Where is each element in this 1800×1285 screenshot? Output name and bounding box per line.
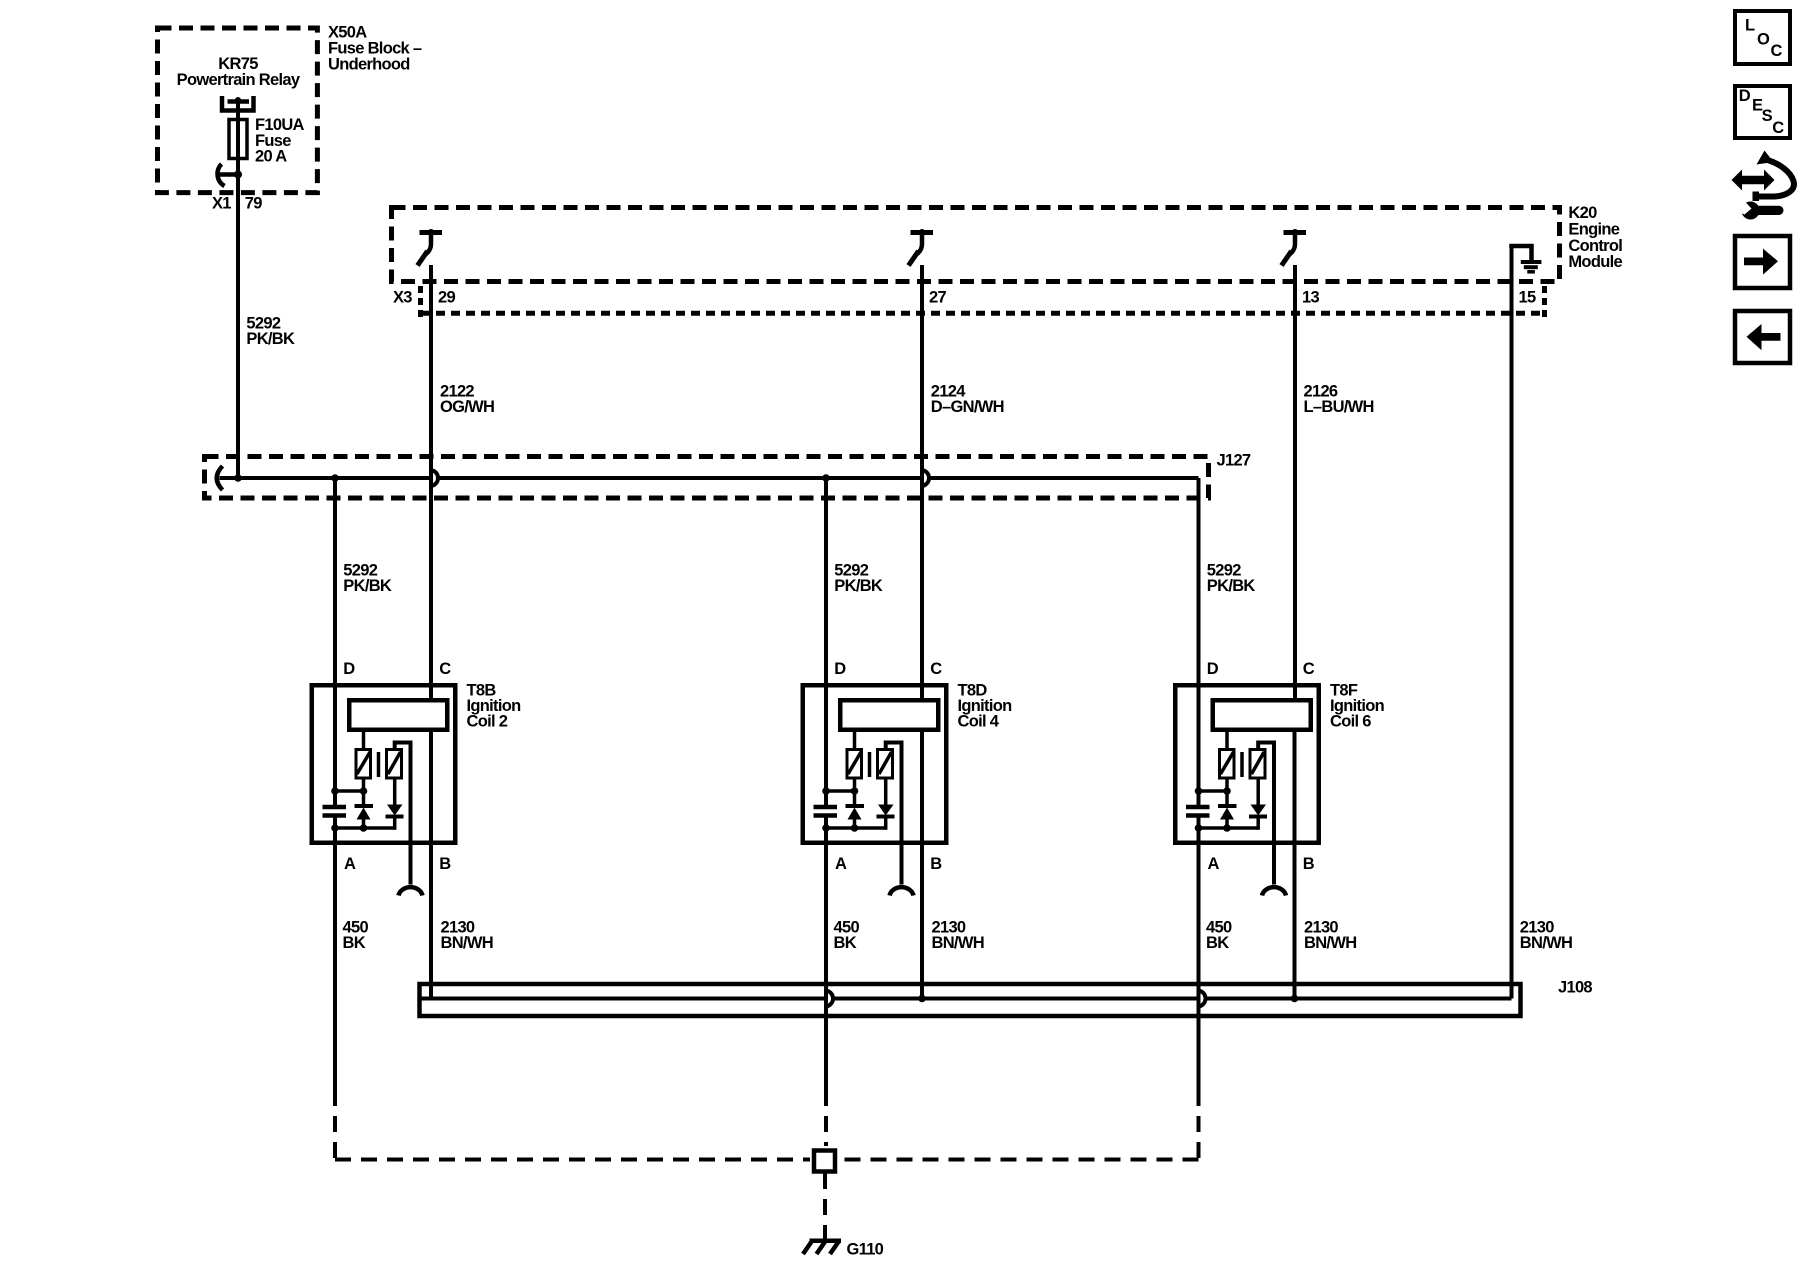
connector X3 dotted line: [421, 311, 1545, 316]
secondary winding T8D: [878, 750, 893, 779]
ignition coil T8D box: [803, 685, 947, 843]
wire 5292 PK/BK to coil6 pin D: [1197, 478, 1201, 1090]
svg-text:A: A: [835, 855, 847, 873]
pin B label T8B: [439, 855, 451, 873]
svg-text:C: C: [1772, 119, 1784, 137]
secondary winding T8B: [387, 750, 402, 779]
label T8F Ignition Coil 6: [1330, 682, 1385, 731]
label J108: [1558, 979, 1592, 997]
T8B primary module rectangle: [349, 700, 447, 730]
wire coil2 pin B 2130 BN/WH: [429, 732, 433, 999]
svg-text:L: L: [1745, 17, 1755, 35]
wire node row lower T8D: [826, 826, 886, 830]
primary winding T8B: [356, 750, 371, 779]
wire 2122 OG/WH pin29 to coil2: [429, 265, 433, 698]
splice pack J127 dashed box: [205, 457, 1209, 499]
pin C label T8F: [1303, 660, 1315, 678]
svg-text:Underhood: Underhood: [328, 55, 410, 73]
svg-text:B: B: [930, 855, 942, 873]
junction dot T8D lower left: [822, 824, 830, 832]
wire secondary top to spark tower T8D: [886, 743, 902, 885]
wire node row lower T8B: [335, 826, 395, 830]
wire node row upper T8B: [335, 789, 364, 793]
svg-text:J127: J127: [1217, 451, 1251, 469]
pin label 27: [929, 288, 946, 306]
junction dot T8F upper mid: [1223, 787, 1231, 795]
svg-text:B: B: [1303, 855, 1315, 873]
svg-text:29: 29: [438, 288, 455, 306]
wire coil4 pin B 2130 BN/WH: [920, 732, 924, 999]
icon box DESC: [1735, 86, 1790, 138]
svg-text:27: 27: [929, 288, 946, 306]
driver transistor pin 13: [1282, 229, 1307, 266]
spark gap T8F: [1262, 887, 1286, 895]
J127 hop over wire 2124: [921, 470, 929, 486]
ground bus J108 outline: [420, 984, 1521, 1016]
T8F primary module rectangle: [1213, 700, 1311, 730]
primary winding T8F: [1220, 750, 1235, 779]
label KR75 Powertrain Relay: [177, 55, 301, 89]
spark gap T8B: [399, 887, 423, 895]
svg-text:BK: BK: [834, 934, 857, 952]
zener diode T8F: [1218, 791, 1237, 829]
junction dot T8D lower mid: [851, 824, 859, 832]
label J127: [1217, 451, 1251, 469]
transformer core T8D: [868, 752, 872, 777]
label T8B Ignition Coil 2: [467, 682, 522, 731]
svg-text:D: D: [834, 660, 846, 678]
wire primary winding bottom lead T8D: [853, 778, 857, 793]
junction dot J108 coil4: [918, 995, 926, 1003]
junction dot T8F lower left: [1195, 824, 1203, 832]
junction dot T8B lower left: [331, 824, 339, 832]
svg-text:C: C: [1771, 42, 1783, 60]
pin C label T8D: [930, 660, 942, 678]
fuse F10UA 20A: [229, 120, 247, 159]
svg-text:D–GN/WH: D–GN/WH: [931, 398, 1004, 416]
svg-text:Coil 2: Coil 2: [467, 713, 508, 731]
label wire 450 BK coil6: [1206, 918, 1232, 952]
pin B label T8D: [930, 855, 942, 873]
junction dot T8B upper mid: [360, 787, 368, 795]
zener diode T8B: [355, 791, 374, 829]
driver transistor pin 29: [418, 229, 443, 266]
label wire 5292 PK/BK coil2: [343, 562, 392, 596]
junction dot T8D upper left: [822, 787, 830, 795]
icon box LOC: [1735, 11, 1790, 64]
wire 2130 BN/WH pin15 ground return: [1510, 246, 1514, 999]
J108 hop over coil6 450 wire: [1198, 991, 1206, 1007]
pin C label T8B: [439, 660, 451, 678]
wire T8D module to primary winding: [853, 732, 857, 750]
junction dot T8B upper left: [331, 787, 339, 795]
pin label 29: [438, 288, 455, 306]
wire 2124 D-GN/WH pin27 to coil4: [920, 265, 924, 698]
wire 5292 PK/BK to coil2 pin D: [333, 478, 337, 1090]
connector X3 left separator: [418, 286, 423, 318]
wire primary winding bottom lead T8F: [1225, 778, 1229, 793]
ignition coil T8F box: [1175, 685, 1319, 843]
junction dot T8F lower mid: [1223, 824, 1231, 832]
junction dot T8F upper left: [1195, 787, 1203, 795]
wire 5292 PK/BK to coil4 pin D: [824, 478, 828, 1090]
svg-text:Engine: Engine: [1568, 221, 1619, 239]
wire T8B module to primary winding: [362, 732, 366, 750]
wire 2126 L-BU/WH pin13 to coil6: [1293, 265, 1297, 698]
J127 hop over wire 2122: [430, 470, 438, 486]
relay KR75 armature T-bar: [228, 97, 250, 103]
svg-text:A: A: [1208, 855, 1220, 873]
junction dot J108 coil6: [1291, 995, 1299, 1003]
dashed ground bus right: [839, 1158, 1199, 1162]
ECM K20 dashed box: [392, 208, 1560, 282]
wire T8F module to primary winding: [1225, 732, 1229, 750]
ECM internal ground symbol: [1521, 262, 1542, 272]
svg-text:D: D: [1207, 660, 1219, 678]
wire primary winding bottom lead T8B: [362, 778, 366, 793]
bus wire J127: [220, 476, 1199, 480]
dashed ground bus left: [335, 1158, 810, 1162]
label wire 450 BK coil2: [343, 918, 369, 952]
svg-text:BK: BK: [1206, 934, 1229, 952]
svg-text:BN/WH: BN/WH: [932, 934, 984, 952]
connector X3 right separator: [1542, 286, 1547, 318]
T8D primary module rectangle: [840, 700, 938, 730]
svg-text:15: 15: [1519, 288, 1536, 306]
pin B label T8F: [1303, 855, 1315, 873]
svg-text:D: D: [343, 660, 355, 678]
svg-text:X3: X3: [393, 288, 412, 306]
label wire 2126 L-BU/WH: [1304, 383, 1374, 417]
pin label 15: [1519, 288, 1536, 306]
diode T8B: [386, 778, 404, 830]
icon diagnostic arrows and wrench: [1732, 151, 1794, 220]
svg-text:OG/WH: OG/WH: [440, 398, 494, 416]
label wire 5292 PK/BK coil6: [1207, 562, 1256, 596]
svg-text:C: C: [1303, 660, 1315, 678]
junction dot J127 coil2 tap: [331, 474, 339, 482]
svg-text:Control: Control: [1568, 237, 1622, 255]
pin label X3: [393, 288, 412, 306]
label wire 5292 PK/BK relay feed: [246, 315, 295, 349]
ground G110 symbol: [803, 1241, 841, 1254]
svg-text:13: 13: [1302, 288, 1319, 306]
svg-text:BK: BK: [343, 934, 366, 952]
svg-text:BN/WH: BN/WH: [1520, 934, 1572, 952]
wire secondary top to spark tower T8B: [395, 743, 411, 885]
wire coil6 pin B 2130 BN/WH: [1293, 732, 1297, 999]
label wire 2122 OG/WH: [440, 383, 494, 417]
bus wire J108: [422, 997, 1512, 1001]
junction dot T8B lower mid: [360, 824, 368, 832]
svg-text:Powertrain Relay: Powertrain Relay: [177, 71, 301, 89]
svg-text:G110: G110: [847, 1241, 884, 1259]
label wire 2130 BN/WH coil2: [441, 918, 493, 952]
pin A label T8D: [835, 855, 847, 873]
wire fuse output pin 79 down to splice J127: [236, 175, 240, 479]
secondary winding T8F: [1250, 750, 1265, 779]
junction dot T8D upper mid: [851, 787, 859, 795]
driver transistor pin 27: [909, 229, 934, 266]
svg-text:Module: Module: [1568, 253, 1622, 271]
pin label 79: [245, 194, 262, 212]
svg-text:PK/BK: PK/BK: [246, 330, 295, 348]
pin D label T8D: [834, 660, 846, 678]
diode T8F: [1249, 778, 1267, 830]
label wire 2124 D-GN/WH: [931, 383, 1004, 417]
relay switch blade: [217, 164, 242, 186]
junction dot J127 coil4 tap: [822, 474, 830, 482]
svg-text:S: S: [1762, 107, 1773, 125]
ignition coil T8B box: [312, 685, 456, 843]
svg-text:79: 79: [245, 194, 262, 212]
svg-text:20 A: 20 A: [255, 148, 287, 166]
diode T8D: [877, 778, 895, 830]
label wire 450 BK coil4: [834, 918, 860, 952]
svg-text:BN/WH: BN/WH: [441, 934, 493, 952]
svg-text:PK/BK: PK/BK: [1207, 577, 1256, 595]
J127 left end curl: [217, 466, 223, 490]
label X50A Fuse Block Underhood: [328, 24, 422, 74]
wire secondary top to spark tower T8F: [1258, 743, 1274, 885]
J108 hop over coil4 450 wire: [825, 991, 833, 1007]
svg-text:J108: J108: [1558, 979, 1592, 997]
dashed wire splice to G110: [823, 1173, 827, 1240]
pin label 13: [1302, 288, 1319, 306]
svg-text:K20: K20: [1568, 204, 1597, 222]
junction dot J127 relay feed: [234, 474, 242, 482]
label T8D Ignition Coil 4: [958, 682, 1013, 731]
relay KR75 contact bracket: [222, 96, 254, 111]
svg-text:A: A: [344, 855, 356, 873]
svg-text:B: B: [439, 855, 451, 873]
pin A label T8B: [344, 855, 356, 873]
label wire 2130 BN/WH coil4: [932, 918, 984, 952]
wire relay to fuse: [236, 99, 240, 172]
wire node row lower T8F: [1199, 826, 1259, 830]
wire node row upper T8F: [1199, 789, 1228, 793]
svg-text:PK/BK: PK/BK: [834, 577, 883, 595]
svg-text:Coil 6: Coil 6: [1330, 713, 1371, 731]
svg-text:X1: X1: [212, 194, 231, 212]
svg-text:C: C: [930, 660, 942, 678]
pin A label T8F: [1208, 855, 1220, 873]
label G110: [847, 1241, 884, 1259]
primary winding T8D: [847, 750, 862, 779]
capacitor T8F: [1186, 807, 1210, 816]
label wire 5292 PK/BK coil4: [834, 562, 883, 596]
transformer core T8F: [1240, 752, 1244, 777]
svg-text:D: D: [1739, 87, 1751, 105]
wire node row upper T8D: [826, 789, 855, 793]
label K20 Engine Control Module: [1568, 204, 1622, 271]
svg-text:PK/BK: PK/BK: [343, 577, 392, 595]
icon box arrow left: [1735, 311, 1790, 363]
svg-text:BN/WH: BN/WH: [1304, 934, 1356, 952]
pin label X1: [212, 194, 231, 212]
label wire 2130 BN/WH pin15: [1520, 918, 1572, 952]
spark gap T8D: [890, 887, 914, 895]
ECM internal ground wire elbow: [1512, 246, 1532, 260]
dashed wire coil4 450 BK to splice: [824, 1090, 828, 1146]
capacitor T8B: [323, 807, 347, 816]
svg-text:O: O: [1757, 30, 1770, 48]
dashed wire coil2 450 BK to splice: [333, 1090, 337, 1161]
capacitor T8D: [814, 807, 838, 816]
label F10UA Fuse 20 A: [255, 116, 305, 165]
transformer core T8B: [377, 752, 381, 777]
splice box node: [814, 1151, 835, 1172]
dashed wire coil6 450 BK to splice: [1197, 1090, 1201, 1161]
pin D label T8F: [1207, 660, 1219, 678]
zener diode T8D: [846, 791, 865, 829]
pin D label T8B: [343, 660, 355, 678]
icon box arrow right: [1735, 236, 1790, 288]
svg-text:Coil 4: Coil 4: [958, 713, 1000, 731]
svg-text:C: C: [439, 660, 451, 678]
svg-text:L–BU/WH: L–BU/WH: [1304, 398, 1374, 416]
fuse block X50A dashed box: [158, 28, 318, 193]
label wire 2130 BN/WH coil6: [1304, 918, 1356, 952]
